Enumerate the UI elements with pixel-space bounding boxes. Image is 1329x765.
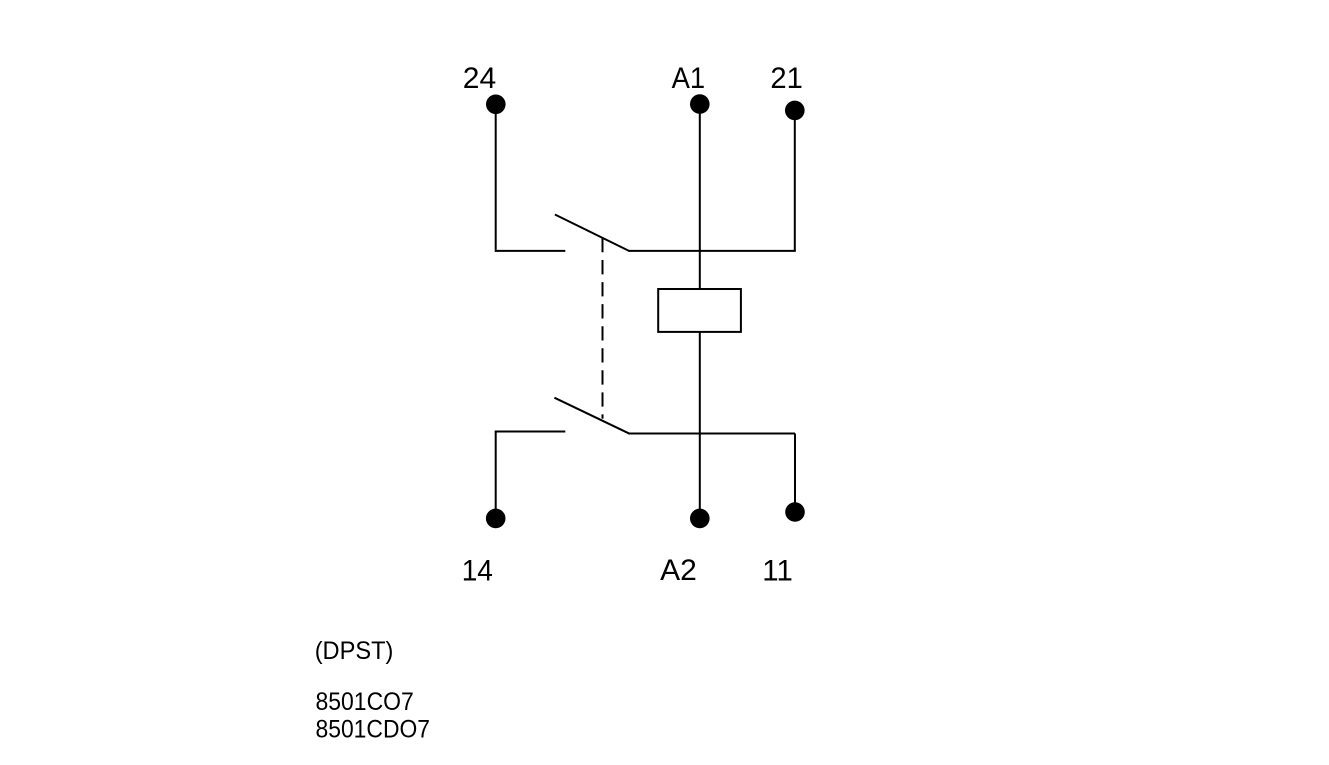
svg-text:11: 11 xyxy=(762,554,793,587)
svg-text:A1: A1 xyxy=(672,62,706,95)
svg-text:21: 21 xyxy=(770,62,803,95)
terminal dot 14 xyxy=(486,509,506,529)
svg-text:14: 14 xyxy=(462,554,493,587)
terminal dot 24 xyxy=(486,95,506,115)
coil K1 xyxy=(658,289,741,332)
mechanical link dashed xyxy=(602,238,604,419)
upper contact moving blade xyxy=(555,215,630,252)
wire 24 terminal to upper contact xyxy=(495,104,497,250)
wire 14 terminal up to lower contact xyxy=(495,432,497,519)
wire lower contact left fixed lead xyxy=(495,431,566,433)
wire A1 terminal to coil xyxy=(699,104,701,289)
wire upper contact left fixed lead xyxy=(495,250,566,252)
svg-text:24: 24 xyxy=(463,62,496,95)
terminal dot A2 xyxy=(690,509,710,529)
wire 21 terminal down to upper run xyxy=(794,110,796,251)
wire upper contact right run to 21 column xyxy=(629,250,796,252)
svg-text:8501CDO7: 8501CDO7 xyxy=(316,716,431,744)
svg-text:A2: A2 xyxy=(660,554,697,587)
wire lower contact right run to 11 column xyxy=(629,433,796,435)
terminal dot 21 xyxy=(785,101,805,121)
terminal dot A1 xyxy=(690,94,710,114)
wire coil to lower run and A2 terminal xyxy=(699,332,701,519)
svg-text:8501CO7: 8501CO7 xyxy=(316,688,414,716)
lower contact moving blade xyxy=(554,398,629,434)
wire 11 terminal up to lower run xyxy=(794,434,796,513)
svg-text:(DPST): (DPST) xyxy=(315,637,394,665)
terminal dot 11 xyxy=(785,502,805,522)
